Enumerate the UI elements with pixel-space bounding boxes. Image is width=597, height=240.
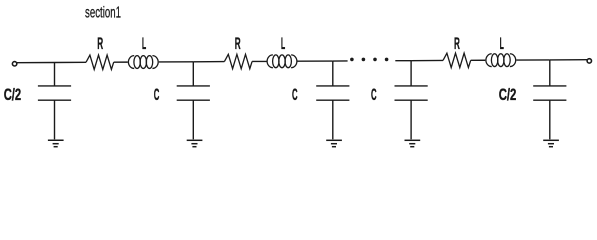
terminal (left port): [12, 62, 16, 66]
capacitor C (section n): [395, 61, 428, 140]
svg-text:C/2: C/2: [499, 86, 517, 104]
svg-text:C: C: [292, 86, 298, 104]
wire: junction D to resistor R (sec.n): [411, 59, 443, 61]
wire: junction C to ellipsis: [333, 60, 348, 62]
wire: inductor L to junction C: [298, 60, 333, 62]
wire: resistor R to inductor L (sec.n): [471, 59, 486, 61]
terminal (right port): [587, 59, 591, 63]
ground: [543, 140, 559, 146]
ellipsis dots (repeated sections): [350, 58, 388, 62]
resistor R (section n): [443, 53, 471, 67]
wire: resistor R to inductor L (sec.2): [252, 60, 266, 62]
svg-text:R: R: [454, 35, 460, 53]
capacitor C (section 1): [177, 62, 210, 140]
wire: inductor L to junction E: [516, 59, 550, 61]
svg-text:C: C: [371, 86, 377, 104]
svg-text:L: L: [281, 35, 285, 53]
wire: ellipsis to junction D: [395, 60, 411, 62]
svg-text:L: L: [500, 35, 504, 53]
resistor R (section 1): [86, 55, 114, 69]
wire: inductor L to junction B: [159, 61, 194, 63]
wire: junction A to resistor R: [55, 61, 87, 63]
capacitor C/2 (left end): [38, 63, 71, 140]
svg-text:C/2: C/2: [4, 86, 22, 104]
ground: [326, 140, 342, 146]
ground: [48, 140, 64, 146]
svg-text:section1: section1: [85, 5, 121, 22]
inductor L (section 1): [128, 56, 158, 69]
svg-text:C: C: [154, 86, 160, 104]
ground: [405, 140, 421, 146]
ground: [187, 140, 203, 146]
svg-text:L: L: [142, 35, 146, 53]
inductor L (section n): [486, 54, 516, 67]
svg-text:R: R: [235, 35, 241, 53]
wire: resistor R to inductor L (sec.1): [114, 61, 128, 63]
wire: left terminal to junction A: [17, 62, 55, 64]
svg-text:R: R: [97, 35, 103, 53]
wire: junction B to resistor R (sec.2): [193, 61, 224, 63]
capacitor C/2 (right end): [533, 60, 566, 139]
capacitor C (section 2): [316, 61, 349, 139]
resistor R (section 2): [224, 54, 252, 68]
wire: junction E to right terminal: [550, 59, 587, 61]
inductor L (section 2): [267, 55, 297, 68]
